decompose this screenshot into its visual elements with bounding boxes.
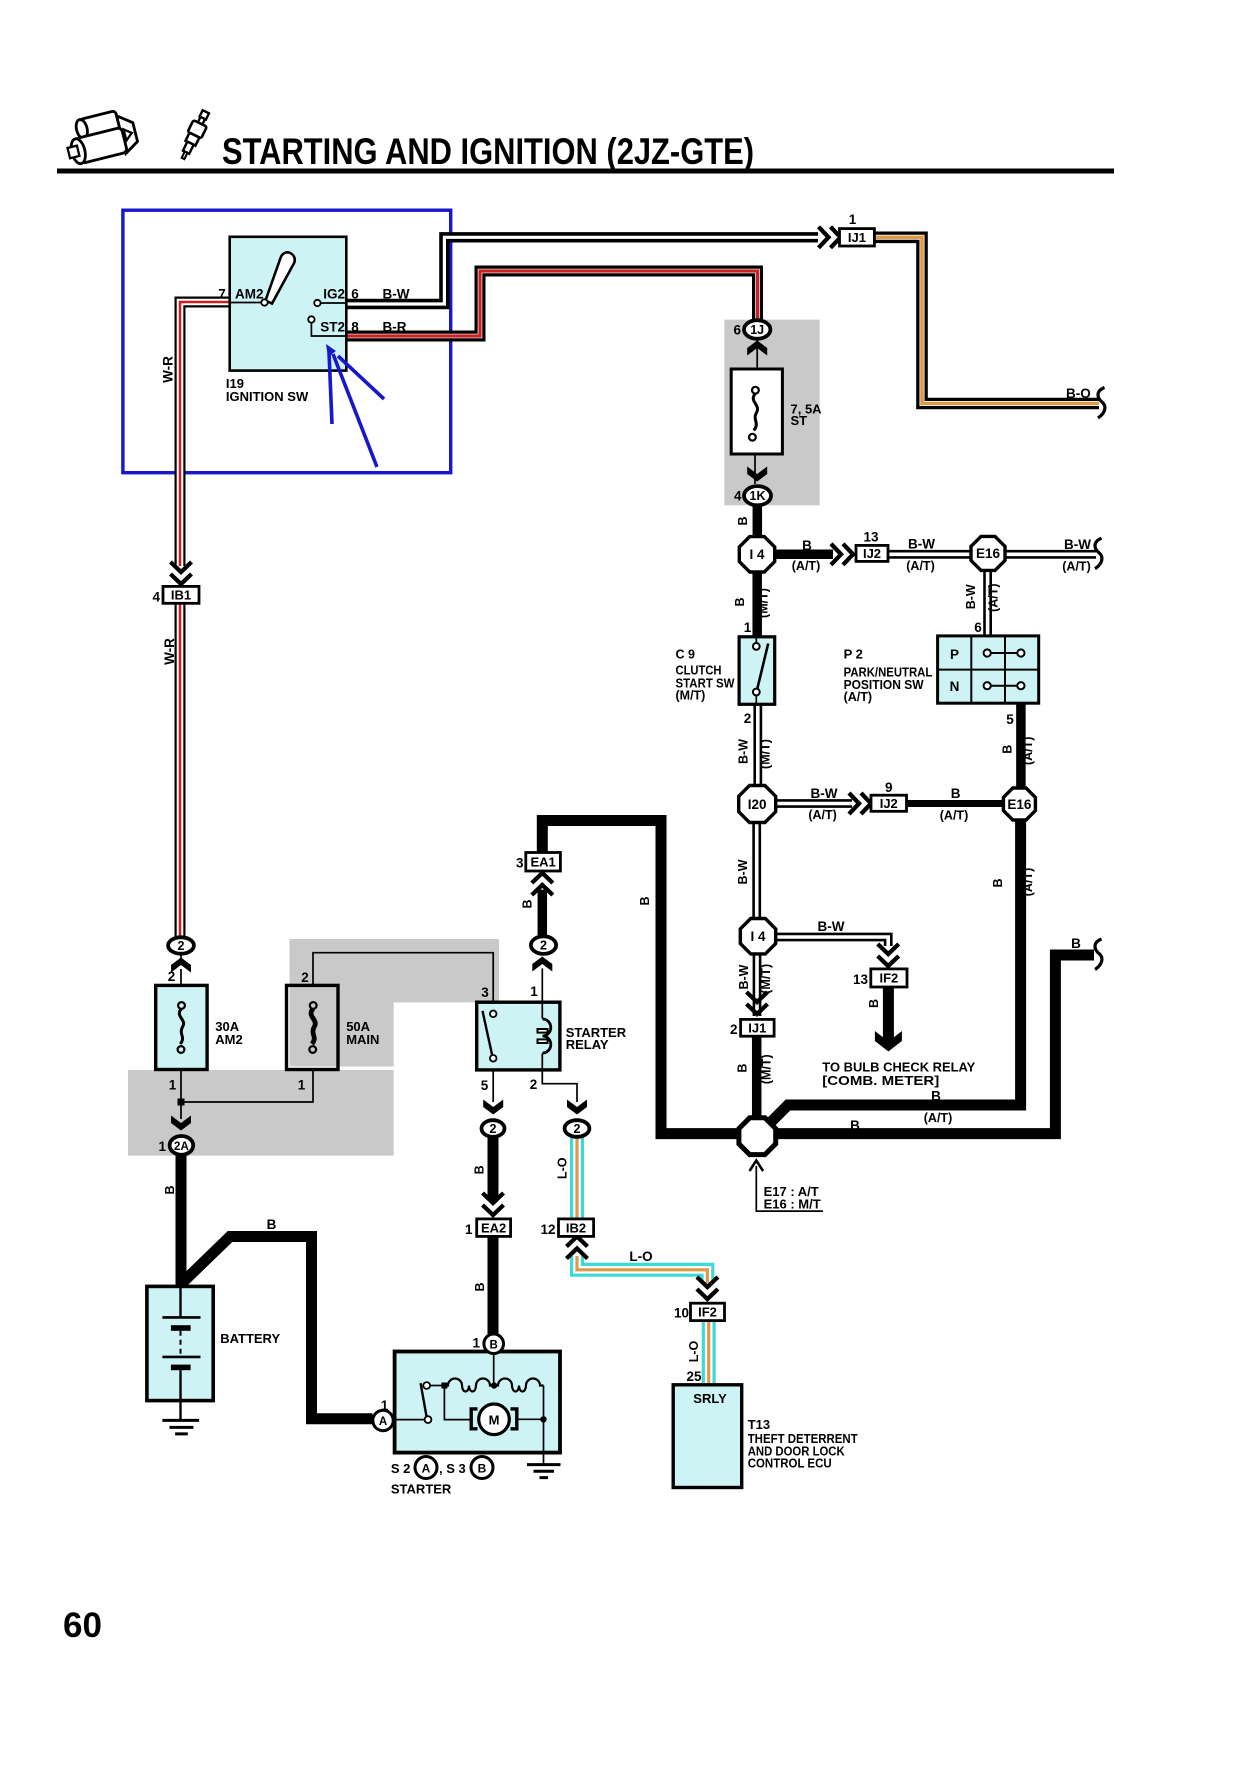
connector E16 lower	[1003, 788, 1035, 820]
svg-text:1: 1	[744, 620, 752, 635]
blue annotation arrows	[326, 344, 384, 467]
svg-text:13: 13	[863, 530, 879, 545]
starter pin B	[484, 1334, 504, 1354]
fuse 30A AM2	[156, 985, 207, 1069]
wire B-W from I4 to IJ1 (M/T)	[753, 954, 762, 1016]
arrow into connector 2 from relay 2	[567, 1100, 587, 1115]
wire B from 1K to I4	[753, 506, 763, 539]
battery body	[147, 1286, 213, 1400]
svg-text:, S 3: , S 3	[439, 1461, 466, 1476]
svg-text:6: 6	[733, 323, 741, 338]
clutch start switch C9	[739, 637, 775, 705]
svg-text:IF2: IF2	[880, 971, 899, 986]
svg-text:B: B	[473, 1282, 487, 1291]
svg-text:A: A	[422, 1461, 431, 1475]
svg-text:B-R: B-R	[383, 320, 407, 335]
wire B from 2A to battery	[176, 1138, 187, 1285]
svg-text:10: 10	[674, 1306, 689, 1321]
wire B-W from I20 to I4	[752, 822, 761, 920]
svg-text:IB1: IB1	[171, 588, 191, 603]
ignition contact AM2 pin 7	[230, 302, 263, 304]
gray shade band (below fuses)	[128, 1070, 394, 1156]
starter coil 1	[444, 1379, 494, 1392]
fuse 50A MAIN	[287, 985, 339, 1069]
svg-text:(M/T): (M/T)	[759, 964, 773, 994]
svg-text:B-W: B-W	[908, 537, 935, 552]
svg-text:3: 3	[516, 856, 524, 871]
svg-text:W-R: W-R	[161, 356, 176, 383]
svg-text:B-O: B-O	[1066, 386, 1091, 401]
connector E16	[971, 536, 1005, 570]
connector IJ2 lower	[871, 795, 907, 811]
svg-text:B-W: B-W	[737, 739, 751, 764]
arrow into connector 2 from relay 5	[483, 1100, 503, 1115]
arrow into 2A	[171, 1116, 191, 1131]
svg-text:P 2: P 2	[844, 647, 863, 662]
svg-text:ST: ST	[791, 413, 808, 428]
park/neutral position switch P2	[938, 636, 1039, 703]
svg-text:I 4: I 4	[750, 929, 766, 944]
svg-text:IJ1: IJ1	[848, 230, 866, 245]
svg-text:B-W: B-W	[736, 859, 750, 884]
wire B-W from IJ2 to E16 (A/T)	[888, 550, 972, 559]
svg-text:SRLY: SRLY	[693, 1391, 727, 1406]
wire B from I4 to C9 pin 1 (M/T)	[752, 572, 762, 638]
wire relay pin 5 down	[492, 1070, 494, 1102]
arrow into connector 2 AM2	[171, 958, 191, 973]
connector IJ1	[840, 229, 875, 246]
svg-text:E16: E16	[976, 546, 1001, 561]
arrow into IJ2 mid	[849, 793, 871, 814]
svg-text:ST2: ST2	[320, 320, 345, 335]
svg-text:1J: 1J	[750, 323, 764, 337]
wire into ST fuse	[756, 352, 758, 369]
wire B from IJ2 to E16 (A/T)	[907, 800, 1005, 807]
svg-text:IB2: IB2	[566, 1220, 586, 1235]
svg-text:RELAY: RELAY	[566, 1037, 609, 1052]
svg-text:B: B	[163, 1185, 177, 1194]
svg-text:2A: 2A	[174, 1141, 189, 1153]
svg-text:B-W: B-W	[383, 287, 410, 302]
wire into AM2 fuse	[180, 969, 182, 986]
svg-text:B: B	[473, 1165, 487, 1174]
svg-text:B: B	[802, 538, 812, 553]
note E17/E16 leader	[756, 1166, 823, 1211]
wire from connector 2 to relay pin 1	[541, 968, 543, 1003]
svg-text:3: 3	[481, 985, 489, 1000]
svg-text:IJ2: IJ2	[863, 546, 881, 561]
svg-text:CONTROL ECU: CONTROL ECU	[748, 1455, 832, 1470]
arrow into IJ1 lower	[747, 992, 768, 1014]
svg-text:25: 25	[686, 1369, 702, 1384]
svg-text:STARTER: STARTER	[391, 1482, 452, 1497]
svg-text:B: B	[867, 999, 881, 1008]
svg-text:L-O: L-O	[687, 1340, 701, 1362]
svg-text:B: B	[267, 1217, 277, 1232]
svg-text:IF2: IF2	[698, 1305, 717, 1320]
connector IB1	[163, 586, 199, 603]
blue highlight box around ignition switch	[123, 210, 451, 473]
svg-text:(A/T): (A/T)	[987, 583, 1001, 611]
wire B-R from ST2 to 1J	[346, 271, 758, 336]
svg-text:A: A	[379, 1416, 387, 1428]
svg-text:6: 6	[974, 620, 982, 635]
wire B from connector 2 to EA2	[488, 1137, 499, 1200]
svg-text:(M/T): (M/T)	[757, 588, 771, 618]
ground battery	[179, 1401, 181, 1421]
svg-text:AM2: AM2	[215, 1032, 242, 1047]
connector EA1	[526, 853, 561, 872]
fuse 7.5A ST	[731, 369, 782, 454]
svg-text:AM2: AM2	[235, 287, 264, 302]
wire B from battery to starter pin A	[181, 1237, 373, 1419]
wire 1J to ST fuse arrow	[756, 340, 758, 352]
relay coil	[541, 1002, 543, 1018]
svg-text:(M/T): (M/T)	[759, 739, 773, 769]
svg-text:1: 1	[465, 1222, 473, 1237]
arrow into EA2	[483, 1193, 504, 1215]
connector 1K	[744, 486, 771, 505]
connector IJ2	[856, 545, 888, 561]
splice I4	[739, 537, 774, 572]
svg-text:[COMB. METER]: [COMB. METER]	[822, 1073, 939, 1088]
wire B-W from E16 down to P2 pin 6	[983, 570, 992, 636]
starter junction dot	[441, 1383, 447, 1389]
svg-text:2: 2	[490, 1122, 497, 1136]
svg-text:(A/T): (A/T)	[1062, 560, 1090, 574]
splice I4 lower	[740, 919, 775, 954]
svg-text:(A/T): (A/T)	[792, 559, 820, 573]
arrow into EA1	[532, 873, 553, 895]
wire connector 2 into AM2 fuse	[180, 954, 182, 962]
starter coil return wire	[543, 1386, 545, 1420]
svg-text:2: 2	[730, 1022, 738, 1037]
svg-text:N: N	[950, 679, 960, 694]
header rule	[57, 169, 1114, 174]
wire W-R from IB1 to fuse connector 2	[175, 603, 186, 938]
starter motor M	[479, 1404, 510, 1435]
svg-text:(A/T): (A/T)	[1021, 868, 1035, 896]
svg-text:(A/T): (A/T)	[940, 809, 968, 823]
svg-text:2: 2	[574, 1122, 581, 1136]
wire B from IJ1 to junction (M/T)	[752, 1036, 762, 1122]
svg-text:5: 5	[1006, 712, 1014, 727]
starter coil 2	[494, 1379, 543, 1392]
wire B from EA1 arrow to connector 2	[538, 890, 548, 938]
svg-text:L-O: L-O	[556, 1157, 570, 1179]
ignition key symbol	[266, 252, 295, 303]
connector 2 right	[565, 1120, 590, 1137]
connector 2 left	[482, 1120, 505, 1137]
wire B from junction to break	[775, 955, 1094, 1134]
svg-text:60: 60	[63, 1606, 102, 1645]
svg-text:1: 1	[158, 1139, 166, 1154]
svg-text:1K: 1K	[750, 489, 766, 503]
svg-text:B: B	[850, 1118, 860, 1133]
starter motor branch wire	[444, 1386, 471, 1420]
svg-text:P: P	[950, 647, 959, 662]
svg-text:E16: E16	[1007, 797, 1032, 812]
wire break B-O	[1098, 388, 1105, 419]
starter coil junction dot	[491, 1382, 497, 1388]
wire B-W from C9 pin 2 to I20 (M/T)	[753, 703, 762, 786]
battery cells	[179, 1286, 181, 1317]
connector IB2	[559, 1219, 594, 1237]
starter relay body	[477, 1002, 560, 1070]
arrow into IF2 lower	[697, 1277, 718, 1299]
arrow into IJ2 top	[831, 544, 853, 565]
svg-text:C 9: C 9	[676, 648, 696, 662]
svg-text:B: B	[478, 1461, 487, 1475]
svg-text:(M/T): (M/T)	[676, 689, 706, 703]
svg-text:5: 5	[481, 1078, 489, 1093]
svg-text:B: B	[490, 1339, 498, 1351]
svg-text:12: 12	[540, 1222, 555, 1237]
svg-text:B: B	[991, 878, 1005, 887]
connector 2A	[170, 1136, 194, 1155]
gray shade band (50A MAIN bottom)	[290, 1002, 394, 1067]
starter ground junction dot	[540, 1416, 546, 1422]
wire from 50A MAIN to relay pin 3	[313, 953, 493, 1003]
svg-text:(A/T): (A/T)	[906, 559, 934, 573]
ignition contact IG2 pin 6	[320, 302, 346, 304]
connector EA2	[477, 1219, 511, 1237]
svg-text:B-W: B-W	[964, 584, 978, 609]
svg-text:9: 9	[885, 780, 893, 795]
svg-text:8: 8	[351, 320, 359, 335]
arrow into connector 2 relay	[532, 957, 552, 972]
relay switch contacts	[483, 1011, 493, 1056]
wire 50A MAIN pin 1 branch	[181, 1070, 313, 1103]
svg-text:6: 6	[351, 287, 359, 302]
svg-text:B-W: B-W	[811, 786, 838, 801]
svg-text:(A/T): (A/T)	[844, 690, 872, 704]
wire break B right	[1095, 939, 1102, 970]
wire L-O from IF2 to T13 pin 25	[702, 1321, 716, 1385]
wire B-W from IG2 to IJ1	[346, 237, 818, 304]
connector IJ1 lower	[741, 1019, 775, 1036]
svg-text:2: 2	[540, 939, 547, 953]
gray shade behind ST fuse	[724, 320, 819, 506]
svg-text:B: B	[736, 516, 750, 525]
svg-text:S 2: S 2	[391, 1461, 411, 1476]
svg-text:EA1: EA1	[530, 854, 555, 869]
svg-text:13: 13	[853, 972, 869, 987]
P2 contact row N	[990, 685, 1018, 687]
junction dot fuse branch	[178, 1099, 185, 1106]
svg-text:1: 1	[169, 1078, 177, 1093]
svg-text:2: 2	[530, 1077, 538, 1092]
arrow to bulb check relay	[875, 1031, 902, 1052]
svg-text:IG2: IG2	[323, 287, 345, 302]
ground splice junction	[739, 1118, 776, 1155]
svg-text:E16 : M/T: E16 : M/T	[764, 1197, 821, 1212]
svg-text:B-W: B-W	[737, 964, 751, 989]
svg-text:B: B	[1071, 936, 1081, 951]
svg-text:B: B	[951, 786, 961, 801]
svg-text:IGNITION SW: IGNITION SW	[226, 389, 309, 404]
wire L-O from IB2 to IF2	[577, 1256, 707, 1283]
svg-text:2: 2	[168, 969, 176, 984]
svg-text:1: 1	[472, 1336, 480, 1351]
arrow into IF2	[878, 944, 899, 966]
svg-text:CLUTCH: CLUTCH	[676, 664, 722, 678]
svg-text:B-W: B-W	[1064, 537, 1091, 552]
connector IF2	[871, 969, 907, 987]
svg-text:IJ1: IJ1	[748, 1021, 766, 1036]
svg-text:I20: I20	[748, 797, 767, 812]
wire W-R from AM2 to IB1	[180, 302, 346, 566]
ground starter	[543, 1419, 545, 1464]
gray shade band (50A MAIN top)	[290, 939, 500, 1002]
svg-text:EA2: EA2	[481, 1220, 506, 1235]
wire B from IF2 to bulb check relay	[883, 987, 894, 1042]
svg-text:B-W: B-W	[818, 919, 845, 934]
starter switch	[395, 1419, 425, 1421]
connector 2 relay	[531, 936, 556, 954]
starter motor icon	[62, 107, 213, 167]
svg-text:1: 1	[530, 984, 538, 999]
svg-text:T13: T13	[748, 1417, 770, 1432]
wire relay pin 2 down	[542, 1070, 577, 1102]
svg-text:1: 1	[298, 1078, 306, 1093]
wire ST fuse to 1K	[754, 454, 756, 484]
arrow into IB2	[567, 1237, 588, 1259]
svg-text:(M/T): (M/T)	[760, 1054, 774, 1084]
svg-text:MAIN: MAIN	[346, 1032, 379, 1047]
wire B from I4 to IJ2 (A/T)	[775, 550, 833, 560]
svg-text:2: 2	[301, 970, 309, 985]
svg-text:B: B	[521, 899, 535, 908]
svg-text:2: 2	[744, 711, 752, 726]
wire B from P2 pin 5 to E16	[1016, 703, 1026, 789]
wire L-O from connector 2 to IB2	[570, 1137, 584, 1219]
svg-text:(A/T): (A/T)	[808, 808, 836, 822]
arrow into 1J	[747, 341, 767, 356]
svg-text:2: 2	[178, 939, 185, 953]
wire B from EA2 to starter pin B	[488, 1236, 499, 1336]
connector IF2 lower	[691, 1303, 725, 1320]
wire B-W from E16 to break (A/T)	[1005, 550, 1096, 559]
svg-text:4: 4	[152, 590, 160, 605]
starter pin A	[373, 1410, 393, 1430]
splice I20	[739, 786, 776, 823]
spark plug icon	[176, 108, 212, 161]
theft deterrent ECU T13	[673, 1385, 742, 1488]
svg-text:(A/T): (A/T)	[924, 1111, 952, 1125]
wire AM2 fuse pin 1 to 2A	[180, 1070, 182, 1120]
svg-text:B: B	[735, 1064, 749, 1073]
svg-text:4: 4	[734, 489, 742, 504]
arrow into IB1	[171, 562, 192, 584]
svg-text:I 4: I 4	[749, 547, 765, 562]
wire B from E16 down to junction (A/T)	[767, 820, 1021, 1127]
svg-text:B: B	[638, 896, 652, 905]
arrow into IJ1	[819, 227, 841, 248]
wire B-W from I4 to IF2	[776, 937, 889, 946]
wire break B-W E16	[1095, 538, 1102, 569]
svg-text:W-R: W-R	[162, 638, 177, 665]
svg-text:B: B	[733, 597, 747, 606]
wire B-O from IJ1 to break	[874, 237, 1099, 403]
wire B loop from junction to EA1	[542, 821, 742, 1134]
ignition contact ST2 pin 8	[311, 323, 346, 337]
svg-text:BATTERY: BATTERY	[220, 1331, 280, 1346]
svg-text:B: B	[931, 1089, 941, 1104]
svg-text:(A/T): (A/T)	[1021, 737, 1035, 765]
ignition switch I19 body	[230, 237, 347, 371]
wire B-W from I20 to IJ2 (A/T)	[776, 799, 852, 808]
P2 contact row P	[990, 652, 1018, 654]
svg-text:B: B	[1000, 745, 1014, 754]
svg-text:L-O: L-O	[629, 1249, 652, 1264]
connector 2 AM2	[168, 937, 194, 953]
starter body S2/S3	[395, 1352, 560, 1453]
svg-text:M: M	[489, 1412, 500, 1427]
svg-text:IJ2: IJ2	[880, 796, 898, 811]
arrow into 1K	[747, 467, 767, 482]
svg-text:1: 1	[849, 212, 857, 227]
connector 1J	[744, 320, 770, 339]
svg-text:STARTING AND IGNITION (2JZ-GTE: STARTING AND IGNITION (2JZ-GTE)	[222, 131, 754, 172]
svg-text:7: 7	[218, 287, 226, 302]
